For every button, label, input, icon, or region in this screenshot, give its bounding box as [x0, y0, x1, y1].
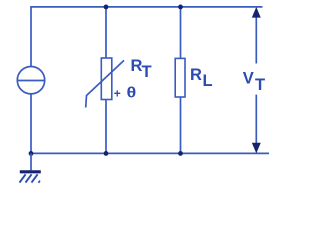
- wire: RL branch lower segment: [180, 97, 182, 153]
- junction dot bottom rail at thermistor: [104, 151, 109, 156]
- svg-text:R: R: [190, 66, 202, 84]
- VT measurement arrow lower shaft: [255, 95, 257, 144]
- wire: thermistor branch lower segment: [105, 100, 107, 154]
- resistor RL body: [175, 58, 185, 97]
- ground hatch 3: [32, 174, 38, 182]
- wire: thermistor branch upper segment: [105, 7, 107, 58]
- VT measurement arrow upper shaft: [255, 16, 257, 64]
- ground hatch 2: [26, 174, 32, 182]
- ground bar: [20, 170, 41, 173]
- svg-text:L: L: [203, 72, 213, 90]
- thermistor RT body: [101, 58, 112, 100]
- VT arrowhead up: [252, 8, 260, 18]
- junction dot top rail at thermistor: [104, 5, 109, 10]
- ground stub wire: [30, 153, 32, 170]
- svg-text:T: T: [255, 76, 265, 94]
- wire: top rail: [30, 6, 262, 8]
- current source bar: [17, 80, 44, 82]
- junction dot bottom rail at RL: [178, 151, 183, 156]
- junction dot bottom rail at left branch: [29, 151, 34, 156]
- current source circle: [17, 67, 44, 94]
- wire: bottom rail: [30, 152, 269, 154]
- svg-text:+: +: [114, 86, 121, 100]
- svg-text:θ: θ: [127, 85, 137, 101]
- VT arrowhead down: [252, 143, 260, 153]
- svg-text:T: T: [142, 63, 152, 81]
- thermistor RT diagonal stroke with foot: [86, 60, 124, 107]
- svg-text:V: V: [243, 70, 254, 88]
- junction dot top rail at RL: [178, 5, 183, 10]
- wire: RL branch upper segment: [180, 7, 182, 59]
- wire: left branch upper segment: [30, 7, 32, 66]
- wire: left branch lower segment: [30, 94, 32, 153]
- ground hatch 1: [20, 174, 26, 182]
- ground hatch dot: [39, 181, 40, 183]
